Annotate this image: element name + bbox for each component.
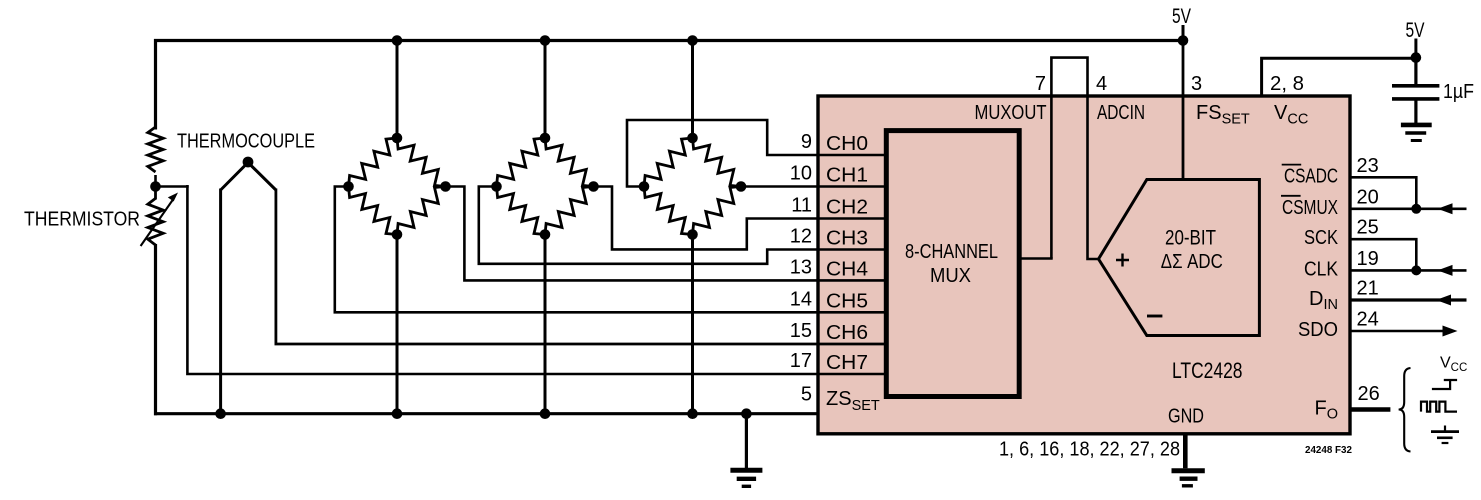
svg-text:CH5: CH5 — [826, 290, 868, 312]
svg-text:20-BIT: 20-BIT — [1165, 227, 1216, 250]
thermocouple junction bead — [243, 157, 254, 168]
svg-text:CH3: CH3 — [826, 228, 868, 250]
wire VCC (pins 2,8) to 5V — [1262, 58, 1418, 97]
node bridge B1 top — [392, 133, 403, 144]
wire top 5V rail — [154, 39, 1185, 42]
bridge B3 resistor top-left arm — [644, 138, 693, 187]
svg-text:4: 4 — [1096, 73, 1107, 95]
ground (GND pins) — [1172, 468, 1205, 473]
svg-text:MUX: MUX — [930, 265, 971, 287]
wire thermocouple left leg to ZS rail — [219, 189, 222, 414]
svg-text:10: 10 — [790, 163, 812, 185]
wire CLK (pin 19) — [1350, 269, 1467, 272]
node bridge B2 left — [491, 181, 502, 192]
node thermistor junction — [150, 181, 161, 192]
node rail-bridge1 junction — [392, 35, 403, 46]
node ground junction — [741, 408, 752, 419]
node bridge B3 top — [687, 133, 698, 144]
wire CH4 from bridge B1 right node — [445, 187, 887, 281]
wire CH5 from bridge B1 left node — [335, 187, 886, 313]
wire MUX output to MUXOUT pin — [1018, 257, 1053, 260]
node rail-bridge2 junction — [540, 35, 551, 46]
wire junction to thermistor — [154, 185, 157, 200]
wire CH2 from bridge B2 right node — [593, 187, 887, 250]
svg-text:14: 14 — [790, 288, 812, 310]
wire CSADC (pin 23) — [1350, 177, 1416, 209]
wire MUXOUT-ADCIN loop (pins 7-4) — [1051, 58, 1099, 259]
bridge B3 resistor bottom-right arm — [693, 187, 742, 235]
svg-text:21: 21 — [1357, 278, 1379, 300]
brace for FO options — [1399, 368, 1411, 452]
FO option: ground (internal osc) — [1444, 426, 1446, 432]
node CSADC-CSMUX junction — [1411, 204, 1421, 214]
bridge B2 resistor top-right arm — [545, 138, 594, 187]
wire GND stem — [1183, 433, 1188, 468]
wire CH0 from bridge B3 left node — [627, 120, 886, 187]
svg-text:7: 7 — [1035, 73, 1046, 95]
wire bridge B1 bottom to ZS rail — [396, 233, 399, 414]
arrow into CLK — [1438, 265, 1453, 276]
node bridge B3 bottom — [687, 229, 698, 240]
svg-text:ADCIN: ADCIN — [1097, 102, 1145, 124]
wire thermocouple right leg to CH6 — [276, 189, 886, 345]
svg-text:24: 24 — [1357, 309, 1379, 331]
node rail-5V junction — [1178, 35, 1189, 46]
bridge B2 resistor top-left arm — [497, 138, 546, 187]
node bridge B1 left — [343, 181, 354, 192]
wire FO (pin 26) — [1350, 407, 1390, 412]
arrow out of SDO — [1443, 326, 1458, 337]
node rail-bridge3 junction — [687, 35, 698, 46]
node bridge B2 right — [588, 181, 599, 192]
bridge B1 resistor bottom-left arm — [349, 187, 398, 235]
wire ZS_SET rail — [154, 412, 818, 415]
wire CH1 from bridge B3 right node — [740, 185, 886, 188]
bridge B1 resistor top-right arm — [397, 138, 446, 187]
FO option: tie-high symbol — [1432, 380, 1457, 389]
svg-text:25: 25 — [1357, 217, 1379, 239]
wire rail feed to bridge B2 — [544, 39, 547, 140]
svg-text:3: 3 — [1191, 73, 1202, 95]
svg-text:SCK: SCK — [1304, 227, 1339, 249]
wire junction to capacitor — [1414, 58, 1417, 84]
resistor fixed (series with thermistor) — [148, 127, 163, 172]
wire CSMUX (pin 20) — [1350, 208, 1467, 211]
svg-text:23: 23 — [1357, 155, 1379, 177]
bridge B1 resistor top-left arm — [349, 138, 398, 187]
svg-text:THERMOCOUPLE: THERMOCOUPLE — [177, 131, 315, 153]
node bridge B1 bottom — [392, 229, 403, 240]
ground (ZS_SET rail) — [745, 414, 748, 468]
svg-text:CH0: CH0 — [826, 133, 868, 155]
thermocouple roof — [221, 163, 276, 191]
svg-text:MUXOUT: MUXOUT — [975, 102, 1047, 124]
svg-text:20: 20 — [1357, 186, 1379, 208]
svg-text:LTC2428: LTC2428 — [1172, 358, 1243, 383]
svg-text:8-CHANNEL: 8-CHANNEL — [905, 241, 998, 263]
svg-text:9: 9 — [801, 131, 812, 153]
mux block 8-CHANNEL MUX — [886, 131, 1019, 397]
svg-text:THERMISTOR: THERMISTOR — [24, 209, 140, 231]
svg-text:26: 26 — [1358, 383, 1380, 405]
wire 5V stem to rail — [1182, 25, 1185, 42]
svg-text:12: 12 — [790, 226, 812, 248]
wire rail feed to bridge B1 — [396, 39, 399, 140]
wire bridge B3 bottom to ZS rail — [691, 233, 694, 414]
node bridge B3 right — [736, 181, 747, 192]
svg-text:CH4: CH4 — [826, 259, 868, 281]
FO option: external clock waveform — [1421, 402, 1457, 412]
ground (capacitor) — [1401, 123, 1432, 128]
svg-text:15: 15 — [790, 320, 812, 342]
svg-text:1µF: 1µF — [1443, 81, 1474, 103]
svg-text:CH7: CH7 — [826, 352, 868, 374]
wire 5V stem — [1414, 39, 1417, 60]
wire left rail drop — [154, 39, 157, 130]
wire SCK (pin 25) — [1350, 239, 1416, 270]
bridge B3 resistor top-right arm — [693, 138, 742, 187]
svg-text:11: 11 — [791, 195, 812, 217]
svg-text:CSADC: CSADC — [1284, 165, 1338, 187]
adc block 20-BIT delta-sigma ADC — [1099, 180, 1260, 336]
node SCK-CLK junction — [1411, 265, 1421, 275]
thermistor R (variable) — [148, 198, 163, 245]
adc - input — [1147, 315, 1162, 318]
arrow into DIN — [1436, 295, 1451, 306]
svg-text:SDO: SDO — [1298, 319, 1338, 341]
svg-text:17: 17 — [790, 350, 812, 372]
node bridge2-bottom junction — [540, 408, 551, 419]
node bridge B2 bottom — [540, 229, 551, 240]
bridge B3 resistor bottom-left arm — [644, 187, 693, 235]
adc + input — [1116, 254, 1129, 267]
node bridge B2 top — [540, 133, 551, 144]
node bridge1-bottom junction — [392, 408, 403, 419]
wire 5V rail to FS_SET (pin 3) — [1182, 41, 1185, 181]
svg-text:ΔΣ ADC: ΔΣ ADC — [1161, 251, 1223, 273]
svg-text:13: 13 — [790, 257, 812, 279]
arrow into CSMUX — [1438, 203, 1453, 214]
thermistor arrow — [141, 200, 173, 247]
svg-text:24248 F32: 24248 F32 — [1305, 444, 1352, 456]
node thermocouple-left-leg junction — [215, 408, 226, 419]
wire rail feed to bridge B3 — [691, 39, 694, 140]
svg-text:2, 8: 2, 8 — [1270, 73, 1304, 95]
svg-text:1, 6, 16, 18, 22, 27, 28: 1, 6, 16, 18, 22, 27, 28 — [999, 439, 1180, 461]
svg-text:CH6: CH6 — [826, 322, 868, 344]
wire CH3 from bridge B2 left node — [479, 187, 886, 264]
svg-text:CH1: CH1 — [826, 165, 868, 187]
svg-text:CH2: CH2 — [826, 197, 868, 219]
svg-text:5: 5 — [801, 384, 812, 406]
wire thermistor to ZS rail — [154, 244, 157, 415]
node 5V-cap junction — [1411, 52, 1422, 63]
wire junction stub to CH7 drop — [154, 185, 189, 188]
node bridge B1 right — [440, 181, 451, 192]
wire bridge B2 bottom to ZS rail — [544, 233, 547, 414]
wire DIN (pin 21) — [1350, 298, 1467, 301]
bridge B2 resistor bottom-left arm — [497, 187, 546, 235]
wire resistor to junction — [154, 175, 157, 188]
node bridge3-bottom junction — [687, 408, 698, 419]
node bridge B3 left — [639, 181, 650, 192]
svg-text:19: 19 — [1357, 248, 1379, 270]
bridge B2 resistor bottom-right arm — [545, 187, 594, 235]
bridge B1 resistor bottom-right arm — [397, 187, 446, 235]
chip U1 LTC2428 body — [818, 96, 1350, 434]
wire CH7 from thermistor junction — [187, 185, 886, 374]
svg-text:CLK: CLK — [1304, 258, 1339, 280]
svg-text:GND: GND — [1168, 406, 1204, 428]
svg-text:5V: 5V — [1172, 5, 1191, 28]
svg-text:CSMUX: CSMUX — [1282, 197, 1338, 219]
wire SDO (pin 24) — [1350, 330, 1443, 333]
capacitor C1 1uF — [1392, 84, 1439, 88]
